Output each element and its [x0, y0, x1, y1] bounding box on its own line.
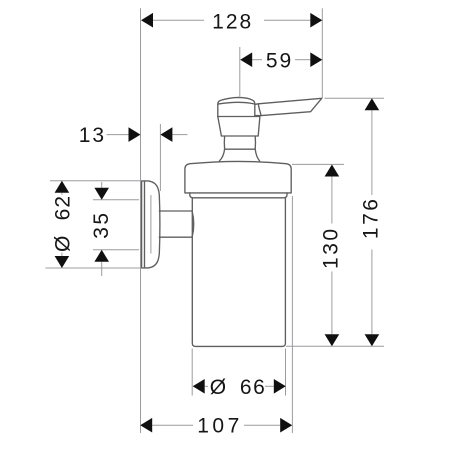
arrow dia66 right [274, 379, 286, 394]
extension line dia62 bottom [46, 267, 141, 269]
extension line 59 left [239, 47, 241, 97]
mounting arm end cap [192, 211, 194, 237]
arrow dia62 bottom [55, 256, 70, 268]
mounting arm top [159, 210, 192, 212]
cup body [192, 198, 285, 347]
arrow 13 right [160, 127, 172, 142]
extension line 107 right [291, 196, 293, 433]
dimension line dia62 [61, 193, 63, 195]
dimension line 35 tails [101, 182, 103, 188]
pump cap bottom line [218, 116, 260, 118]
arrow 176 top [365, 98, 380, 110]
extension line bottom shared [286, 345, 384, 347]
arrow 130 top [325, 165, 340, 177]
svg-text:Ø 62: Ø 62 [51, 195, 74, 252]
svg-text:13: 13 [79, 124, 106, 147]
pump lever base line [258, 104, 261, 116]
extension line dia62 top [50, 180, 140, 182]
extension line 13 right [159, 124, 161, 191]
extension line 35 bottom [93, 249, 139, 251]
pump neck bottom line [225, 148, 256, 150]
arrow 35 bottom [94, 250, 109, 262]
pump cap outline [218, 97, 255, 116]
extension line dia66 left [191, 349, 193, 396]
dimension line 13 tails [107, 134, 129, 136]
arrow 13 left [129, 127, 141, 142]
front extension line (handle tip) [321, 8, 323, 98]
svg-text:107: 107 [197, 415, 243, 438]
arrow 128 left [141, 13, 153, 28]
arrow 107 right [280, 418, 292, 433]
collar outline [185, 161, 291, 193]
pump flare right [255, 149, 259, 161]
extension line 176 top [325, 97, 385, 99]
wall plate outline [142, 181, 160, 268]
pump lower body left [218, 117, 222, 137]
pump body bottom line [221, 135, 258, 137]
wall reference extension line [140, 8, 142, 433]
pump lever handle [255, 98, 322, 115]
pump lower body right [258, 117, 260, 137]
dimension line 176 [371, 110, 373, 195]
pump flare left [219, 149, 224, 161]
arrow 59 left [240, 52, 252, 67]
arrow dia62 top [55, 181, 70, 193]
extension line dia66 right [285, 349, 287, 396]
dimension line 128 [153, 19, 204, 21]
arrow 107 left [140, 418, 152, 433]
wall plate inner line [144, 181, 146, 268]
collar lip ring [190, 193, 287, 198]
svg-text:176: 176 [359, 197, 382, 240]
arrow dia66 left [193, 379, 205, 394]
wall plate front step line [150, 195, 152, 254]
dimension line dia66 [205, 385, 208, 387]
extension line 130 top [292, 163, 344, 165]
arrow 176 bottom [365, 334, 380, 346]
svg-text:59: 59 [266, 50, 293, 73]
arrow 130 bottom [325, 334, 340, 346]
svg-text:35: 35 [90, 210, 113, 238]
pump neck right [254, 136, 256, 149]
dimension line 130 [331, 177, 333, 224]
mounting arm bottom [159, 236, 192, 238]
arrow 35 top [94, 188, 109, 200]
extension line 35 top [93, 199, 139, 201]
svg-text:130: 130 [319, 226, 342, 269]
arrow 128 right [310, 13, 322, 28]
svg-text:128: 128 [212, 11, 253, 34]
dimension line 59 [252, 59, 262, 61]
dimension line 107 [152, 424, 193, 426]
svg-text:Ø 66: Ø 66 [210, 376, 267, 399]
arrow 59 right [310, 52, 322, 67]
pump neck left [223, 136, 225, 149]
pump cap inner arc [218, 102, 255, 104]
